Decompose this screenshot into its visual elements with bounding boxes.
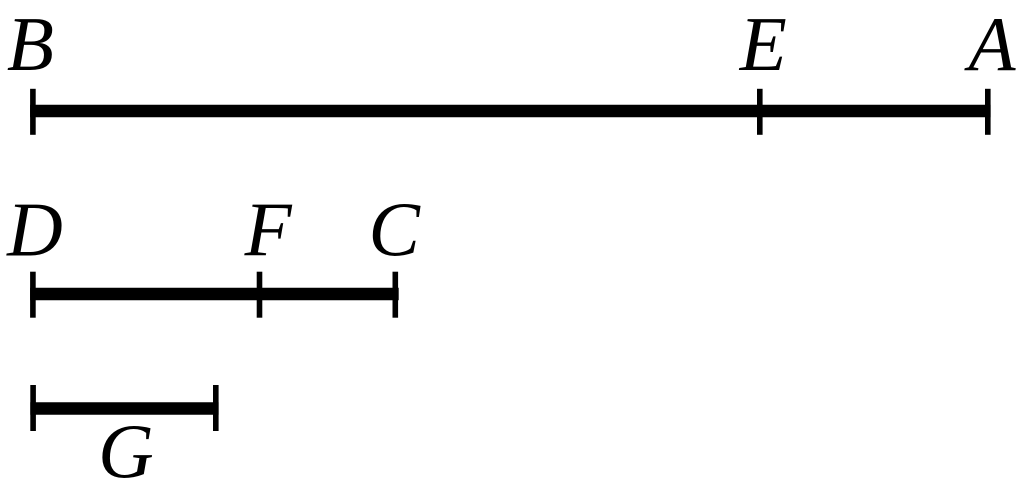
svg-text:B: B (7, 1, 54, 87)
svg-text:E: E (739, 1, 787, 87)
svg-text:D: D (6, 187, 63, 273)
tick A (985, 89, 991, 135)
svg-text:A: A (964, 1, 1017, 87)
segment BA line (30, 105, 991, 118)
tick D (30, 272, 36, 318)
svg-text:C: C (369, 187, 422, 273)
tick G-left (30, 385, 36, 431)
tick C (393, 272, 399, 318)
svg-text:G: G (98, 409, 154, 495)
tick G-right (213, 385, 219, 431)
tick E (757, 89, 763, 135)
tick B (30, 89, 36, 135)
tick F (257, 272, 263, 318)
segment G line (30, 402, 218, 415)
segment DC line (30, 288, 399, 301)
svg-text:F: F (244, 187, 293, 273)
